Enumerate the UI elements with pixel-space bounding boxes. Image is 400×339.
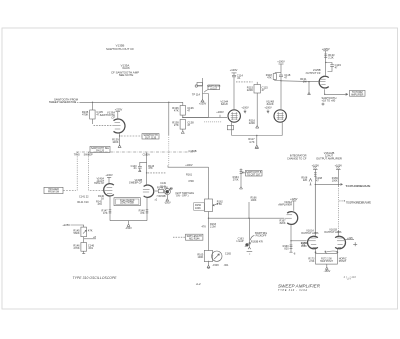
pot R165 wiper to knob <box>212 255 215 257</box>
label C133 <box>335 63 342 69</box>
wire below R164 arrow <box>240 176 243 189</box>
label C146 <box>88 243 95 249</box>
svg-text:47K: 47K <box>98 203 103 206</box>
label -150V pot <box>164 202 171 205</box>
svg-text:1M: 1M <box>303 80 307 84</box>
wire bus to diode pickoff <box>248 218 250 247</box>
wire V135A plate to supply <box>117 112 119 120</box>
label C160A at selector junction <box>143 154 150 157</box>
label R164 <box>233 176 240 181</box>
svg-text:SW 135: SW 135 <box>96 151 105 153</box>
svg-text:6AU6: 6AU6 <box>221 102 228 106</box>
wire plate column V114A <box>233 73 235 109</box>
svg-text:OUTPUT AMPL: OUTPUT AMPL <box>324 231 342 234</box>
junction dot grid column <box>146 172 147 173</box>
svg-text:SWP POSIT: SWP POSIT <box>320 261 333 263</box>
label sweep magnifier small <box>170 188 173 190</box>
svg-text:SAWTOOTH OUT CF: SAWTOOTH OUT CF <box>106 47 134 51</box>
svg-text:+225V: +225V <box>322 47 330 51</box>
svg-text:R149: R149 <box>160 186 166 188</box>
tube V140B grid detail <box>143 189 150 192</box>
power -150V arrowhead grid return <box>308 92 311 94</box>
wire input lead dash <box>75 101 80 103</box>
power +225V label left divider chain <box>62 223 70 227</box>
svg-text:x2: x2 <box>155 199 158 201</box>
svg-text:47: 47 <box>262 88 265 92</box>
label C140 <box>131 165 138 170</box>
svg-text:PICKOFF: PICKOFF <box>256 235 267 238</box>
diode CR163 diagonal electrode <box>245 243 251 247</box>
label R140 below left <box>98 195 105 200</box>
label dashed strip under grid wire <box>204 121 222 123</box>
wire left leg to join <box>109 215 111 221</box>
node box sweep length network <box>114 198 140 206</box>
test point circle below cathode <box>322 103 324 105</box>
junction dot plate node <box>325 62 326 63</box>
wire branch to test jack <box>198 85 203 87</box>
svg-text:C165: C165 <box>225 252 232 255</box>
wire V140B grid column <box>146 153 148 186</box>
wire sawtooth tap to bus <box>248 202 250 218</box>
wire divider column to bus <box>208 212 210 251</box>
junction dot cathode bus <box>256 135 257 136</box>
capacitor C114 <box>232 75 236 77</box>
label R143 right of grid line <box>148 165 155 170</box>
svg-text:A-4: A-4 <box>195 282 201 286</box>
potentiometer R162 box <box>205 199 213 212</box>
svg-text:100K: 100K <box>195 207 201 210</box>
svg-text:TP 114: TP 114 <box>192 92 201 96</box>
label R150 far right boxed <box>194 203 205 210</box>
power +100V screen arrow V114A <box>244 110 246 113</box>
label V161A designator <box>277 200 292 207</box>
junction dot grid node <box>308 81 309 82</box>
label R167 <box>280 219 287 225</box>
svg-text:270K: 270K <box>74 246 80 250</box>
label below knob <box>224 264 229 267</box>
svg-text:OUT J135: OUT J135 <box>145 136 157 139</box>
svg-text:-150V: -150V <box>324 270 331 273</box>
svg-text:POSIT: POSIT <box>339 260 347 263</box>
power -150V arrow cathode <box>255 145 259 148</box>
potentiometer R145 wiper <box>83 230 86 233</box>
svg-text:-150V: -150V <box>125 227 132 230</box>
svg-text:47K: 47K <box>148 167 153 170</box>
wire to divider chain top <box>71 225 84 227</box>
wire right output column dashed <box>337 186 339 231</box>
label pickoff with leader <box>255 232 267 238</box>
svg-text:OUTPUT AMPLIFIER: OUTPUT AMPLIFIER <box>316 156 342 160</box>
svg-text:470K: 470K <box>188 180 194 183</box>
power +225V plate supply V135A <box>116 111 120 113</box>
junction dot below R136 <box>182 117 183 118</box>
svg-text:TO CRT HORIZ DEFL PLATE: TO CRT HORIZ DEFL PLATE <box>345 184 370 188</box>
label C138 value <box>187 121 194 128</box>
label R168 <box>301 177 308 183</box>
label top of divider column <box>185 164 193 167</box>
svg-text:4.7K: 4.7K <box>249 140 255 144</box>
wire branch to C133 <box>326 63 332 65</box>
wire cathode join bus <box>110 220 147 222</box>
power arrow below test network <box>201 100 204 102</box>
node title V135A CF sawtooth amplifier <box>111 63 139 76</box>
test point circle <box>195 85 197 87</box>
junction dot box right corner <box>337 251 339 253</box>
svg-text:4 ?: 4 ? <box>347 277 351 281</box>
svg-text:C160A: C160A <box>143 154 150 157</box>
svg-text:47K: 47K <box>174 109 179 113</box>
svg-text:2.2M: 2.2M <box>210 226 216 229</box>
power -150V arrow below R138 <box>181 129 184 133</box>
svg-text:-150V: -150V <box>212 264 219 267</box>
svg-text:2.5K: 2.5K <box>309 260 314 263</box>
tube V114A inner electrodes <box>231 112 238 120</box>
label beside ground <box>212 264 219 267</box>
wire leader curve from box to line <box>204 90 208 93</box>
tube V161A grid detail <box>285 215 292 218</box>
svg-text:FROM SW: FROM SW <box>48 192 60 194</box>
label V114B designator <box>266 99 274 106</box>
label R136 value <box>172 106 179 113</box>
wire V135A cathode down <box>119 133 121 145</box>
svg-text:47: 47 <box>187 123 190 127</box>
svg-text:270K: 270K <box>233 178 239 181</box>
node SAWTOOTH FROM SWEEP GENERATOR input label <box>49 98 79 105</box>
resistor R115 <box>254 85 260 94</box>
tube V135A <box>114 119 126 133</box>
svg-text:TRIG: TRIG <box>74 153 80 156</box>
svg-text:47K: 47K <box>202 225 207 228</box>
resistor ticks R168 <box>314 173 317 178</box>
svg-text:C149: C149 <box>160 183 166 185</box>
adjust arrowhead <box>309 179 312 186</box>
svg-text:100K: 100K <box>332 179 338 182</box>
resistor R149 horizontal <box>158 189 163 192</box>
wire center drop <box>127 221 130 227</box>
label R148 <box>139 210 146 215</box>
svg-text:.001: .001 <box>224 264 229 267</box>
handwritten mark <box>344 275 357 281</box>
svg-text:-8: -8 <box>293 253 296 255</box>
wire deflection arrow right <box>315 183 342 185</box>
wire plate column V135B <box>325 51 327 54</box>
svg-text:SWEEP GENERATOR: SWEEP GENERATOR <box>49 100 76 104</box>
wire left cathode to pot box <box>313 248 317 254</box>
wire right output column upper <box>337 169 339 186</box>
box inner line <box>116 199 139 204</box>
label type 310 oscilloscope <box>73 276 118 280</box>
label 12AU7 output amplifier block <box>316 151 342 161</box>
pot R162 wiper arrow <box>213 203 219 206</box>
node title V135B sawtooth out CF <box>106 43 134 51</box>
svg-text:DC: DC <box>336 167 340 170</box>
junction dot cathode <box>324 94 325 95</box>
svg-text:220K: 220K <box>249 121 255 125</box>
svg-text:SWEEP AMPLIFIER: SWEEP AMPLIFIER <box>278 283 321 288</box>
svg-text:+225V: +225V <box>62 223 70 227</box>
svg-text:+225: +225 <box>347 237 353 240</box>
svg-text:+100V: +100V <box>105 174 113 177</box>
svg-text:o: o <box>249 254 251 256</box>
svg-text:+100V: +100V <box>230 68 238 72</box>
wire bus corner into R136 <box>182 102 184 105</box>
label -150V below pot <box>324 270 331 273</box>
label R145 <box>73 229 80 235</box>
label R117 <box>248 137 255 144</box>
label +225 right <box>347 237 353 240</box>
label R116 <box>249 118 256 125</box>
capacitor C140 <box>138 167 142 172</box>
potentiometer R145 box <box>81 227 87 237</box>
tube V135A grid detail <box>113 122 121 129</box>
power +100V tick top of V114A plate column <box>232 72 237 74</box>
wire V114B plate column upper <box>280 64 282 73</box>
svg-text:470K: 470K <box>82 112 88 116</box>
wire below R135 <box>92 119 94 124</box>
wire dashed vertical selector left <box>76 152 78 191</box>
junction dot main bus left <box>208 218 209 219</box>
svg-text:5X: 5X <box>170 188 173 190</box>
svg-text:1 GAP: 1 GAP <box>236 240 244 243</box>
node box 2nd sweep length <box>186 234 203 240</box>
svg-text:CF: CF <box>111 115 115 119</box>
label C135 value <box>96 110 103 117</box>
svg-text:A OUT: A OUT <box>210 87 217 90</box>
label R160 <box>283 245 290 251</box>
ground plus mark <box>353 242 357 246</box>
power end tick cathode chain <box>289 251 292 253</box>
wire cathode resistor drop <box>256 136 258 146</box>
svg-text:820: 820 <box>284 247 289 250</box>
label -150V <box>125 227 132 230</box>
label pot right <box>339 257 347 263</box>
tube V135B <box>319 76 329 88</box>
wire V114A cathode <box>231 122 233 136</box>
svg-text:C160B: C160B <box>189 149 197 153</box>
svg-text:+100V: +100V <box>216 110 224 114</box>
power +100V supply right output column <box>336 168 341 170</box>
svg-text:.01: .01 <box>237 76 241 80</box>
svg-text:47K: 47K <box>88 229 93 233</box>
resistor ticks right leg <box>146 210 149 215</box>
wire V161A cathode down <box>290 225 292 245</box>
label V140B designator <box>129 179 142 184</box>
svg-text:-150V: -150V <box>164 202 171 205</box>
wire V140B cathode down <box>146 197 148 209</box>
junction dot deflection node <box>315 184 316 185</box>
svg-text:AMPLIFIER: AMPLIFIER <box>277 202 292 206</box>
wire junction to deflection arrow <box>314 178 316 185</box>
junction dot at input bus x=92.5 <box>92 102 93 103</box>
wire vertical from bus x=168.8 down (solid then dotted) <box>168 102 170 135</box>
label integrator note <box>287 154 307 161</box>
label R142 <box>96 201 103 206</box>
label tick below diode <box>249 254 251 256</box>
tube V161 output right <box>335 236 345 249</box>
svg-text:22K: 22K <box>303 179 308 182</box>
label SAW divider <box>251 197 258 203</box>
wire V114B plate column lower <box>280 81 282 109</box>
label V161A output designator <box>301 229 319 235</box>
resistor R131 grid return <box>308 82 310 93</box>
label R135 value <box>82 110 89 117</box>
svg-text:.001: .001 <box>88 246 94 250</box>
resistor R138 <box>180 120 185 130</box>
svg-text:ADJ R144: ADJ R144 <box>189 237 200 240</box>
potentiometer R165 box <box>204 250 212 261</box>
svg-text:R163B 47K: R163B 47K <box>251 241 264 244</box>
wire R136 to grid bus <box>183 115 227 117</box>
label R147 <box>102 210 109 215</box>
label C163 <box>236 237 244 243</box>
capacitor C118 parallel <box>279 73 283 81</box>
tube V140B <box>144 185 154 197</box>
label above resistor <box>160 183 166 189</box>
junction top of RC pair <box>275 72 281 74</box>
wire pot bottom arrow <box>166 195 169 201</box>
label output level <box>322 96 337 102</box>
svg-text:560K: 560K <box>74 231 80 235</box>
resistor R146 <box>81 243 87 252</box>
node box SAWTOOTH A with leader <box>208 85 220 90</box>
power +100V supply V140A plate <box>107 177 111 184</box>
wire cathode to output grid <box>291 240 307 242</box>
label to CRT plate upper <box>345 184 370 188</box>
wire V135B cathode <box>324 89 326 94</box>
svg-text:47: 47 <box>316 179 319 182</box>
junction divider mid <box>83 237 85 243</box>
wire main input bus y=102.3 <box>80 101 183 103</box>
wire pickoff leader curve <box>250 235 254 240</box>
power +225V arrow V161A plate <box>292 201 296 211</box>
resistor R118 parallel <box>273 74 276 80</box>
wire branch right and down to grid bus <box>183 94 209 118</box>
potentiometer sweep position box <box>316 254 338 265</box>
wire divider tap right <box>84 238 96 240</box>
title SWEEP AMPLIFIER <box>278 283 321 288</box>
svg-text:R172 2.5K: R172 2.5K <box>321 258 332 260</box>
label sweep magnifier <box>175 192 194 197</box>
wire main lower bus <box>209 217 285 219</box>
svg-text:TO CRT HORIZ DEFL PLATE: TO CRT HORIZ DEFL PLATE <box>346 201 371 205</box>
label R149 <box>157 186 168 189</box>
label C136 value <box>187 106 194 113</box>
label V114A designator <box>220 99 228 106</box>
wire dash-dot from grid column to divider <box>148 172 167 174</box>
label x mark below resistor <box>155 196 159 202</box>
svg-text:DC: DC <box>313 167 317 170</box>
label C160B near dashed line <box>189 149 197 153</box>
wire right output column to tube <box>337 231 339 236</box>
label R162 <box>217 200 224 206</box>
tube V114B inner electrodes <box>277 112 284 120</box>
junction dot coupling node <box>280 80 281 81</box>
svg-text:47K: 47K <box>140 212 145 215</box>
label R141 <box>77 196 89 204</box>
svg-text:TO CRT CKT: TO CRT CKT <box>247 174 261 176</box>
pot wiper arrow <box>165 188 171 194</box>
svg-text:OUTPUT CF: OUTPUT CF <box>306 71 321 75</box>
label R165 left <box>197 254 204 260</box>
wire dashed grid lead to V135A <box>94 124 113 126</box>
svg-text:+225V: +225V <box>115 108 123 112</box>
svg-text:TRIG CF: TRIG CF <box>94 182 104 185</box>
svg-text:+18 TO +80: +18 TO +80 <box>322 99 336 103</box>
potentiometer sweep magnifier circle <box>164 189 170 195</box>
node box TO HORIZ AMPLIFIER <box>350 90 366 96</box>
wire RC pair bottom join <box>275 80 281 81</box>
label V135A designator <box>100 110 116 119</box>
svg-text:R161: R161 <box>186 174 193 177</box>
svg-text:47K: 47K <box>267 75 272 79</box>
wire right tube cathode lead <box>345 239 354 241</box>
tube V161 output left grid detail <box>309 238 317 245</box>
junction dot sawtooth tap <box>248 218 249 219</box>
wire V140A cathode down <box>109 196 111 210</box>
svg-text:820K: 820K <box>280 222 286 225</box>
resistor R160 ticks <box>290 245 293 252</box>
node box TRIGGER INPUT <box>44 187 63 193</box>
svg-text:47K: 47K <box>103 212 108 215</box>
label R163B right of line <box>251 241 264 244</box>
junction dot cathode node <box>290 240 291 241</box>
wire cathode to output box with arrow <box>325 93 348 95</box>
wire below R165 arrow <box>207 261 210 269</box>
pot knob circle <box>212 251 222 261</box>
svg-text:220K: 220K <box>247 88 253 92</box>
label V135B designator <box>306 68 321 75</box>
label pot left <box>308 257 315 263</box>
title subtitle <box>278 289 307 292</box>
resistor R163 sawtooth B ticks <box>240 169 243 177</box>
label C115 value <box>262 85 269 92</box>
pot wiper arrow above box <box>325 251 338 254</box>
wire divider bottom tick <box>82 251 85 253</box>
label R161 beside divider <box>186 174 194 183</box>
wire below position pot arrow <box>325 264 328 269</box>
svg-text:ON - OFF ): ON - OFF ) <box>176 195 189 198</box>
wire to V135B plate <box>325 60 327 76</box>
power +100V supply left output column <box>313 168 318 170</box>
wire right cathode to pot box <box>337 248 341 254</box>
connector small box <box>197 83 203 86</box>
tube V140A <box>104 184 114 196</box>
tube V114B <box>274 110 286 122</box>
resistor R136 <box>180 106 185 116</box>
wire coupling to V135B grid <box>281 80 318 83</box>
wire dashed to sawtooth-out box <box>121 135 142 137</box>
svg-text:AMPLIFIER: AMPLIFIER <box>351 93 363 96</box>
label R131 <box>300 77 307 83</box>
power -150V arrow V135A cathode <box>118 145 121 148</box>
wire left output column to tube <box>314 184 316 235</box>
power tick +225V <box>323 50 328 52</box>
label C114 <box>237 73 244 79</box>
wire right leg to join <box>146 215 148 221</box>
switch dashed line horizontal <box>76 151 196 153</box>
svg-text:R141 X10: R141 X10 <box>77 201 89 204</box>
resistor R133 ticks <box>324 54 327 60</box>
wire dashed box to selector <box>63 190 76 192</box>
node box SAWTOOTH OUT <box>142 134 159 139</box>
resistor ticks left leg <box>109 210 112 215</box>
label to CRT plate lower <box>346 201 371 205</box>
label R169 <box>332 177 339 183</box>
wire dashed feedback to R115 <box>236 81 253 83</box>
svg-text:+100V: +100V <box>241 106 249 109</box>
label V140A designator <box>94 178 105 186</box>
wire R115 top stub <box>256 82 258 85</box>
